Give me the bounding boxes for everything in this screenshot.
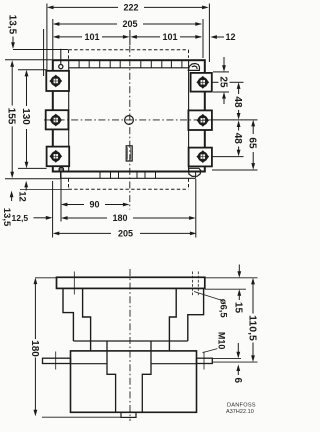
mounting hole axis left <box>73 272 75 295</box>
svg-text:15: 15 <box>233 302 244 314</box>
terminal screw right 1 <box>196 76 209 89</box>
extension line (lug1 top) <box>213 71 229 73</box>
svg-text:13,5: 13,5 <box>6 15 17 35</box>
extension line (plate top left) <box>35 277 57 279</box>
hidden base plate bottom edge (dashed) <box>69 188 189 190</box>
lower housing block <box>71 351 197 412</box>
dimension 205 line (top) <box>56 23 117 25</box>
bottom flange right stub <box>195 172 197 179</box>
mid section line <box>73 340 187 342</box>
leader line dia 6,5 <box>194 292 222 301</box>
svg-text:48: 48 <box>232 133 243 145</box>
extension line (tab bottom right) <box>212 361 257 363</box>
vertical centerline <box>129 46 131 210</box>
extension line (lug1 bottom) <box>213 91 229 93</box>
horizontal centerline <box>44 119 211 121</box>
extension line (tab top right) <box>212 357 241 359</box>
center stud left profile <box>107 341 116 412</box>
center slot inner line right <box>130 147 132 159</box>
module body outline <box>53 60 205 171</box>
lug axis right <box>203 352 205 370</box>
bottom center tab <box>121 412 136 417</box>
clip top right <box>188 64 199 71</box>
mounting hole edge line right <box>197 272 199 297</box>
dimension 155 vertical <box>10 60 14 67</box>
flange tab left <box>43 358 71 363</box>
extension line (screw3 axis) <box>208 156 244 158</box>
dimension 12 arrow (bottom left) <box>24 181 28 188</box>
terminal screw left 1 <box>49 75 62 88</box>
left inner step profile <box>83 288 91 351</box>
body inner wall right <box>188 60 190 171</box>
extension line (130 bottom) <box>18 167 47 169</box>
terminal screw right 3 <box>196 150 209 163</box>
flange tab right <box>197 358 213 363</box>
extension line (205/101 right) <box>202 19 204 58</box>
svg-text:25: 25 <box>217 76 228 88</box>
svg-text:DANFOSS: DANFOSS <box>227 403 256 409</box>
hidden base plate left edge (dashed) <box>68 50 70 61</box>
extension line (222 right / 12) <box>208 4 210 63</box>
dimension 222 line <box>50 6 118 8</box>
extension line (205/101 left) <box>52 19 54 59</box>
baseline extension <box>42 416 121 418</box>
right outer step profile <box>188 288 204 341</box>
right inner step profile <box>169 288 176 351</box>
dimension 180 vertical (elevation) <box>34 278 38 285</box>
hidden base plate left edge lower (dashed) <box>68 178 70 189</box>
top view: plan of module <box>1 3 258 239</box>
dimension 12,5 leader <box>34 217 47 219</box>
mounting lug left 3 <box>47 147 70 167</box>
svg-text:12: 12 <box>226 32 236 42</box>
terminal screw right 2 <box>196 114 209 127</box>
svg-text:48: 48 <box>232 96 243 108</box>
extension line x=43.6 <box>43 29 45 76</box>
bottom flange left stub <box>60 172 62 179</box>
elevation vertical centerline <box>129 269 131 421</box>
bottom strip divider 3 <box>118 172 120 179</box>
top strip divider 5 <box>119 60 121 68</box>
top strip divider 8 <box>161 60 163 68</box>
leader line M10 <box>203 349 218 353</box>
top strip divider 6 <box>140 60 142 68</box>
center hole <box>125 116 134 125</box>
hidden base plate top edge (dashed) <box>69 49 189 51</box>
hidden base plate right edge lower (dashed) <box>188 178 190 189</box>
svg-text:101: 101 <box>84 32 99 42</box>
extension line y=189.4 <box>20 188 69 190</box>
dimension 65 vertical <box>251 120 255 127</box>
top mounting plate <box>57 277 205 288</box>
svg-text:M10: M10 <box>216 332 226 350</box>
svg-text:101: 101 <box>162 32 177 42</box>
center slot inner line left <box>127 147 129 159</box>
mounting lug right 3 <box>189 148 212 167</box>
dimension 12 arrow (top right) <box>210 35 217 39</box>
svg-text:90: 90 <box>89 200 99 210</box>
dimension 101 line (right) <box>133 36 160 38</box>
dimension 205 line (bottom) <box>56 232 111 234</box>
bottom strip divider 6 <box>155 172 157 179</box>
top strip divider 10 <box>181 60 183 68</box>
mounting lug right 2 <box>188 110 212 130</box>
mounting lug right 1 <box>191 73 212 92</box>
left outer step profile <box>63 288 73 341</box>
dimension 13,5 arrow (bottom left) <box>10 191 14 198</box>
svg-text:110,5: 110,5 <box>246 315 258 341</box>
dimension 130 vertical <box>25 70 29 77</box>
lug axis left <box>55 352 57 370</box>
top strip divider 4 <box>109 60 111 68</box>
dimension 13,5 arrow line <box>12 37 14 44</box>
svg-text:180: 180 <box>29 340 40 357</box>
extension line (body bottom) <box>212 169 258 171</box>
dimension 180 line <box>64 217 107 219</box>
bottom flange line <box>61 177 196 179</box>
pin top left <box>60 49 62 64</box>
svg-text:222: 222 <box>123 3 138 13</box>
dimension 110,5 vertical <box>251 278 255 285</box>
dimension 6 upper arrow <box>237 343 239 352</box>
pin bottom left <box>59 167 63 171</box>
extension line (130 top) <box>18 69 46 71</box>
hidden base plate right edge (dashed) <box>188 50 190 58</box>
inner step line left <box>71 363 108 365</box>
extension line (90/180 left) <box>60 173 62 222</box>
svg-text:155: 155 <box>6 108 17 125</box>
svg-text:130: 130 <box>20 108 31 125</box>
extension tick (101 center) <box>129 30 131 45</box>
mounting hole edge line left <box>192 272 194 297</box>
svg-text:205: 205 <box>122 19 137 29</box>
dimension 25 vertical <box>223 57 225 66</box>
extension line (screw2 axis) <box>212 119 258 121</box>
clip bottom right <box>189 168 201 176</box>
mounting lug left 2 <box>46 110 69 129</box>
extension line (180/205 right) <box>195 179 197 238</box>
svg-text:205: 205 <box>118 229 133 239</box>
extension line (plate bottom right) <box>205 288 246 290</box>
bottom strip divider 4 <box>136 172 138 179</box>
svg-text:13,5: 13,5 <box>1 208 12 227</box>
front elevation view <box>29 265 258 422</box>
dimension 48 vertical (lower) <box>237 120 241 127</box>
top strip divider 1 <box>78 60 80 68</box>
bottom strip divider 2 <box>110 172 112 179</box>
extension line (plate top right) <box>205 277 258 279</box>
bottom strip divider 5 <box>144 172 146 179</box>
svg-text:65: 65 <box>247 137 258 149</box>
svg-text:A37H22.10: A37H22.10 <box>226 409 254 415</box>
svg-text:180: 180 <box>112 213 127 223</box>
extension line (155 top) <box>5 59 53 61</box>
dimension 6 lower arrow <box>236 364 240 371</box>
dimension 48 vertical (upper) <box>237 82 241 89</box>
svg-text:12: 12 <box>16 191 27 202</box>
extension line (screw1 axis) <box>208 81 219 83</box>
top strip divider 9 <box>170 60 172 68</box>
dimension 101 line (left) <box>56 36 82 38</box>
center slot <box>126 146 132 161</box>
bottom strip divider 1 <box>99 172 101 179</box>
svg-text:6: 6 <box>232 378 243 384</box>
svg-text:ø6,5: ø6,5 <box>217 299 228 319</box>
top strip divider 2 <box>88 60 90 68</box>
extension line (222 left / lug edge) <box>46 4 48 73</box>
dimension 90 line <box>64 204 84 206</box>
body inner wall left <box>68 60 70 171</box>
svg-text:12,5: 12,5 <box>12 213 29 223</box>
extension line (205 bottom left) <box>52 181 54 238</box>
extension line (155 bottom / 12) <box>5 178 61 180</box>
dimension 15 upper arrow <box>238 265 240 272</box>
center stud right profile <box>142 341 151 412</box>
terminal screw left 2 <box>49 114 62 127</box>
mounting lug left 1 <box>46 71 69 91</box>
extension line y=49.5 (base plate top) <box>13 49 68 51</box>
terminal screw left 3 <box>49 150 62 163</box>
inner step line right <box>151 363 197 365</box>
dimension 15 lower arrow <box>237 289 241 296</box>
top strip divider 7 <box>150 60 152 68</box>
top strip divider 3 <box>99 60 101 68</box>
top terminal strip line <box>69 67 189 69</box>
